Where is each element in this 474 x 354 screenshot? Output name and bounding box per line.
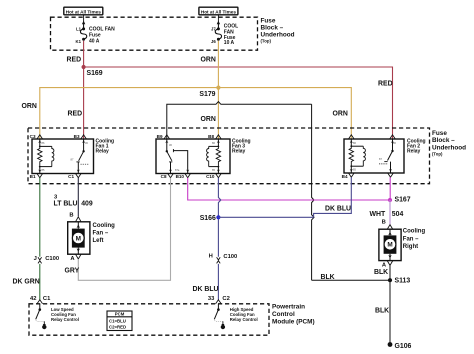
node S167 [388, 198, 392, 202]
relay3 pin B9 (top) [157, 134, 170, 139]
svg-text:Relay: Relay [232, 148, 246, 154]
relay K1 cooling fan 1 relay box [32, 139, 94, 174]
svg-text:B: B [69, 213, 73, 219]
svg-text:Fuse: Fuse [432, 130, 447, 137]
svg-text:DK BLU: DK BLU [193, 286, 219, 293]
svg-text:C1=BLU: C1=BLU [109, 319, 126, 324]
fan left pin A [70, 254, 81, 262]
relay3 pin B8 (top) [208, 134, 221, 139]
svg-text:WHT: WHT [370, 211, 386, 218]
svg-text:C8: C8 [161, 174, 167, 179]
relay3 pin C10 (bottom) [206, 174, 221, 180]
wire from hot label to fuse 2 [217, 15, 219, 29]
svg-text:Hot at All Times: Hot at All Times [66, 9, 102, 14]
svg-text:504: 504 [392, 211, 404, 218]
svg-text:Right: Right [403, 244, 418, 250]
label: Fuse Block - Underhood (Top) lower [432, 130, 466, 157]
svg-text:Fuse: Fuse [261, 17, 276, 24]
relay K3 cooling fan 3 relay box [156, 139, 230, 174]
svg-text:S166: S166 [200, 215, 216, 222]
fuse COOL FAN 10A : pin J7 [211, 21, 220, 32]
svg-text:Module (PCM): Module (PCM) [272, 319, 315, 326]
relay3 pin B10 (bottom) [176, 174, 191, 180]
wire BLK fan right A to S113 [389, 265, 391, 280]
relay1 pin C1 (bottom) [68, 174, 81, 180]
wire WHT S167 to fan right pin B [389, 200, 391, 225]
svg-text:S179: S179 [199, 91, 215, 98]
svg-text:Underhood: Underhood [432, 144, 466, 151]
svg-text:42: 42 [30, 296, 36, 302]
relay2 coil pin (top-left) [349, 135, 355, 139]
svg-text:Hot at All Times: Hot at All Times [201, 9, 237, 14]
relay2 pin B4 (bottom-left) [342, 173, 354, 179]
fuse COOL FAN 10A : element [215, 29, 221, 39]
wire DK GRN relay1 B1 to PCM pin 42 [39, 178, 41, 257]
fuse block underhood (top) relay dashed box [28, 128, 430, 184]
wire from hot label to fuse 1 [83, 15, 85, 29]
fuse COOL FAN 40A : value label [89, 27, 115, 45]
node S179 [216, 86, 220, 90]
PCM low speed driver switch [36, 304, 47, 329]
wire RED S169 to relay1 B3 [83, 67, 85, 139]
PCM pin 42 C1 [30, 296, 51, 304]
relay3 pin C8 (bottom) [161, 174, 174, 180]
relay1 switch [71, 139, 90, 174]
svg-text:BLK: BLK [374, 269, 388, 276]
svg-text:C1: C1 [43, 296, 51, 302]
svg-text:Relay: Relay [407, 148, 421, 154]
svg-text:Control: Control [272, 311, 295, 318]
node S166 [216, 215, 220, 219]
svg-text:(Top): (Top) [261, 38, 272, 43]
svg-text:Fan –: Fan – [93, 231, 109, 237]
wire ORN S179 down to relay3 B8 (with junction chevron) [217, 88, 219, 139]
svg-text:DK BLU: DK BLU [325, 205, 351, 212]
fuse COOL FAN 10A : value label [224, 24, 238, 47]
fuse block underhood (top) dashed box [51, 17, 258, 50]
svg-text:B3: B3 [74, 134, 80, 139]
svg-text:Relay Control: Relay Control [230, 317, 258, 322]
wire MAGENTA relay2 switch pin to S167 [389, 177, 391, 200]
svg-text:Block –: Block – [432, 137, 455, 144]
svg-text:(Top): (Top) [432, 152, 443, 157]
relay K2 cooling fan 2 relay box [344, 139, 404, 173]
svg-text:B4: B4 [342, 174, 348, 179]
connector C100 pin J [34, 256, 59, 263]
hot at all times label 2 [199, 7, 238, 15]
svg-text:BLK: BLK [375, 308, 389, 315]
wire DK BLU S166 right to ground trunk [218, 216, 313, 218]
fuse COOL FAN 40A : pin L1 [76, 21, 85, 32]
wire RED S169 to relay2 switch pin [84, 67, 393, 139]
relay1 coil (resistor + inductor parallel) [38, 139, 54, 174]
wire BLK S113 to G106 [389, 280, 391, 344]
svg-text:J6: J6 [211, 39, 216, 44]
wire DK BLU relay3 C10 to S166 and PCM pin 33 (hop over magenta) [218, 178, 220, 257]
powertrain control module dashed box [29, 304, 269, 335]
svg-text:Powertrain: Powertrain [272, 304, 305, 311]
label: Powertrain Control Module (PCM) [272, 304, 315, 326]
svg-text:Relay Control: Relay Control [51, 317, 79, 322]
svg-text:PCM: PCM [115, 312, 125, 317]
wire BLK ground trunk vertical (hops magenta and dk blu lines) [312, 104, 314, 280]
svg-text:409: 409 [81, 200, 93, 207]
svg-text:Cooling: Cooling [403, 229, 426, 235]
svg-text:M: M [387, 242, 392, 249]
wire BLK trunk to S113 [312, 279, 390, 281]
svg-text:B: B [382, 220, 386, 226]
svg-text:Fan –: Fan – [403, 236, 419, 242]
svg-text:H: H [209, 254, 213, 260]
svg-text:B8: B8 [208, 134, 214, 139]
fan right pin A [382, 261, 393, 269]
svg-text:C2=RED: C2=RED [109, 324, 126, 329]
relay2 coil (resistor + inductor parallel) [349, 139, 365, 173]
svg-text:B10: B10 [176, 174, 185, 179]
motor cooling fan left [68, 222, 90, 254]
svg-text:40 A: 40 A [89, 38, 100, 44]
svg-text:Relay: Relay [96, 148, 110, 154]
wire ORN fuse2 to S179 [217, 41, 219, 88]
svg-text:RED: RED [67, 57, 82, 64]
wire GRY fan left A to relay3 C8 [78, 178, 170, 281]
svg-text:C3: C3 [30, 134, 36, 139]
svg-text:C10: C10 [206, 174, 215, 179]
svg-text:S169: S169 [87, 70, 103, 77]
svg-text:S113: S113 [395, 277, 411, 284]
fuse COOL FAN 40A : element [80, 29, 86, 39]
svg-text:87a: 87a [175, 168, 180, 172]
label: Fuse Block - Underhood (Top) [261, 17, 295, 43]
svg-text:C100: C100 [45, 256, 59, 262]
relay2 switch [379, 139, 396, 173]
svg-text:ORN: ORN [201, 116, 216, 123]
svg-text:BLK: BLK [321, 274, 335, 281]
svg-text:ORN: ORN [201, 57, 216, 64]
relay1 pin B1 (bottom) [30, 174, 43, 180]
svg-text:C100: C100 [223, 254, 237, 260]
svg-text:RED: RED [68, 111, 83, 118]
node S113 [388, 278, 392, 282]
relay1 pin C3 (top) [30, 134, 43, 139]
wire BLK branch relay3 B9 to ground trunk [167, 102, 312, 139]
svg-text:LT BLU: LT BLU [54, 200, 78, 207]
svg-text:Left: Left [93, 238, 104, 244]
svg-text:J: J [34, 256, 37, 262]
relay2 switch pin (top-right) [390, 135, 396, 139]
relay2 switch pin (bottom-right) [388, 173, 394, 177]
wire RED fuse1 to S169 [83, 41, 85, 67]
svg-text:C2: C2 [222, 296, 229, 302]
connector C100 pin H [209, 254, 238, 264]
svg-text:K1: K1 [76, 39, 82, 44]
fan right pin B [382, 220, 393, 230]
wire ORN S179 left to relay1 C3 [40, 88, 219, 139]
relay1 pin B3 (top) [74, 134, 87, 139]
svg-text:DK GRN: DK GRN [13, 279, 40, 286]
svg-text:10 A: 10 A [224, 40, 235, 46]
relay3 switch [165, 139, 189, 174]
svg-text:RED: RED [378, 80, 393, 87]
svg-text:M: M [76, 235, 81, 242]
svg-text:G106: G106 [395, 343, 412, 350]
svg-text:33: 33 [208, 296, 215, 302]
wire MAGENTA relay3 B10 to S167 [188, 178, 390, 200]
svg-text:B1: B1 [30, 174, 36, 179]
fan left pin B [69, 213, 81, 222]
svg-text:C1: C1 [68, 174, 74, 179]
hot at all times label 1 [64, 7, 103, 15]
wire LT BLU relay1 C1 to fan left pin B [77, 178, 79, 217]
svg-text:ORN: ORN [333, 111, 348, 118]
svg-text:GRY: GRY [65, 268, 80, 275]
fuse COOL FAN 10A : pin J6 [211, 38, 220, 44]
svg-text:Cooling: Cooling [93, 223, 116, 229]
svg-text:ORN: ORN [22, 103, 37, 110]
svg-text:Block –: Block – [261, 25, 284, 32]
relay3 coil (inductor + resistor parallel) [207, 139, 221, 174]
motor cooling fan right [379, 229, 401, 260]
wire DK BLU relay2 B4 to ground trunk [314, 177, 352, 217]
PCM high speed driver switch [214, 304, 225, 329]
PCM label box [107, 311, 132, 331]
wire ORN S179 right to relay2 coil pin [218, 88, 351, 139]
fuse COOL FAN 40A : pin K1 [76, 38, 86, 44]
node S169 [82, 65, 86, 69]
PCM pin 33 C2 [208, 296, 230, 304]
ground G106 [388, 342, 393, 347]
svg-text:B9: B9 [157, 134, 163, 139]
svg-text:S167: S167 [395, 196, 411, 203]
